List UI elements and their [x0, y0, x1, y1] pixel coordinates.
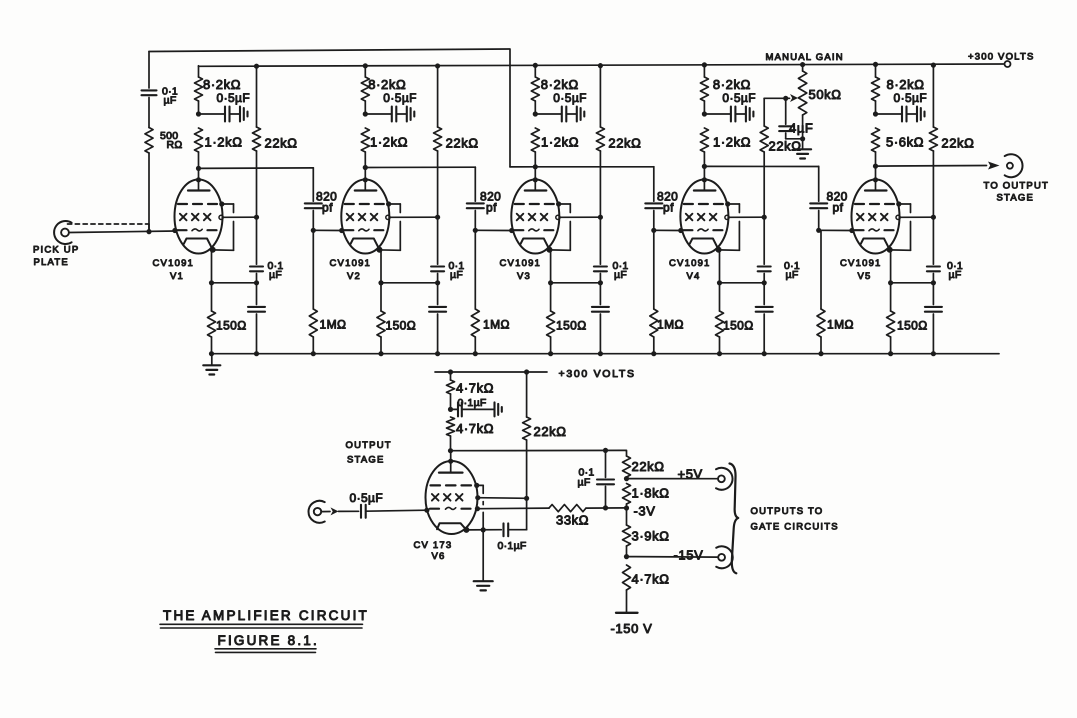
- svg-text:8·2kΩ: 8·2kΩ: [203, 77, 241, 92]
- wire : V5 anode to output terminal: [876, 165, 987, 168]
- svg-text:CV1091: CV1091: [330, 258, 372, 269]
- node : V3 grid: [473, 228, 478, 233]
- node : rail junction V4: [702, 62, 707, 67]
- ground (main): [211, 354, 213, 365]
- capacitor 820pf (V4 coupling): [653, 167, 655, 202]
- resistor 22k (V1 screen feed): [254, 64, 259, 69]
- svg-text:MANUAL GAIN: MANUAL GAIN: [766, 52, 844, 63]
- node : V6 decoupling junction: [448, 407, 453, 412]
- node : V4 screen grid junction: [762, 215, 767, 220]
- svg-text:pf: pf: [486, 201, 497, 215]
- wire : V1 anode to next stage coupling: [199, 167, 314, 170]
- wire : V6 screen to 22k: [478, 497, 527, 500]
- node : V4 grid: [651, 228, 656, 233]
- wire : V2 cathode to bypass capacitors: [381, 282, 438, 284]
- capacitor 4uF (gain smoothing): [785, 98, 787, 124]
- svg-text:33kΩ: 33kΩ: [556, 513, 589, 528]
- svg-text:22kΩ: 22kΩ: [446, 136, 479, 151]
- svg-text:50kΩ: 50kΩ: [809, 87, 842, 102]
- svg-text:-150 V: -150 V: [611, 621, 653, 636]
- wire : V4 anode to next stage coupling: [704, 165, 818, 167]
- wire : coupling capacitor to V5 grid: [819, 229, 852, 231]
- capacitor 0.5uF (V4 decoupling): [704, 113, 730, 115]
- wire : V6 suppressor to cathode bracket: [477, 484, 484, 486]
- tube V4 CV1091 pentode: [703, 166, 705, 179]
- svg-text:4·7kΩ: 4·7kΩ: [456, 421, 494, 436]
- resistor 22k (V2 screen feed): [435, 63, 440, 68]
- capacitor 0.1uF (V4 screen bypass): [763, 217, 765, 264]
- svg-text:V6: V6: [432, 551, 446, 562]
- resistor 22k (V3 screen feed): [598, 63, 603, 68]
- capacitor 0.1uF (divider bypass): [603, 448, 608, 453]
- pick up plate terminal: [61, 229, 69, 237]
- capacitor (V5 cathode bypass): [932, 283, 934, 305]
- tube V3 CV1091 pentode: [534, 167, 536, 180]
- svg-text:8·2kΩ: 8·2kΩ: [368, 77, 406, 92]
- svg-text:1MΩ: 1MΩ: [320, 318, 347, 332]
- node : V2 anode decoupling junction: [363, 111, 368, 116]
- svg-text:OUTPUT: OUTPUT: [346, 440, 392, 451]
- svg-text:0·1µF: 0·1µF: [458, 397, 487, 409]
- svg-text:+5V: +5V: [678, 467, 703, 482]
- svg-text:0·5µF: 0·5µF: [722, 91, 756, 105]
- svg-text:GATE CIRCUITS: GATE CIRCUITS: [751, 522, 839, 533]
- node : V1 cathode bypass junction: [254, 280, 259, 285]
- svg-text:22kΩ: 22kΩ: [534, 424, 567, 439]
- node : V1 screen grid junction: [254, 215, 259, 220]
- node : V3 screen grid junction: [598, 215, 603, 220]
- resistor 4.7k (V6 anode decoupling upper): [450, 372, 452, 380]
- svg-text:1MΩ: 1MΩ: [657, 318, 684, 332]
- capacitor 0.5uF (V3 decoupling): [535, 113, 561, 115]
- svg-text:4·7kΩ: 4·7kΩ: [632, 572, 670, 587]
- capacitor 820pf (V5 coupling): [818, 166, 820, 201]
- svg-text:3·9kΩ: 3·9kΩ: [632, 529, 670, 544]
- svg-text:pf: pf: [663, 201, 674, 215]
- svg-text:STAGE: STAGE: [347, 455, 385, 466]
- wire : V2 anode to next stage coupling: [365, 166, 475, 168]
- svg-text:+300 VOLTS: +300 VOLTS: [968, 52, 1034, 63]
- resistor 150 ohm (V1 cathode bias): [211, 249, 213, 311]
- capacitor 0.5uF (V6 input coupling): [321, 511, 330, 513]
- resistor 8.2k (V4 anode load upper): [703, 66, 705, 77]
- svg-text:µF: µF: [450, 269, 463, 281]
- tube V2 CV1091 pentode: [364, 168, 366, 180]
- wire : 50k wiper to V4 screen resistor: [763, 98, 765, 126]
- resistor 33k (V6 grid bias feed): [477, 507, 549, 510]
- svg-text:RΩ: RΩ: [167, 139, 183, 151]
- svg-text:1·2kΩ: 1·2kΩ: [370, 135, 408, 150]
- svg-text:OUTPUTS TO: OUTPUTS TO: [751, 506, 824, 517]
- svg-text:8·2kΩ: 8·2kΩ: [541, 77, 579, 92]
- node : V5 cathode bypass junction: [931, 280, 936, 285]
- svg-text:-3V: -3V: [634, 504, 656, 519]
- resistor 1.2kΩ (V4 anode load lower): [700, 128, 708, 152]
- svg-text:150Ω: 150Ω: [556, 319, 587, 333]
- node : rail junction V3: [533, 63, 538, 68]
- resistor 5.6kΩ (V5 anode load lower): [872, 128, 880, 152]
- node : +5V tap: [626, 477, 628, 479]
- svg-text:CV1091: CV1091: [153, 258, 195, 269]
- terminal TO OUTPUT STAGE: [1007, 163, 1013, 169]
- wire : feedback line from V3 anode to V1 grid network: [149, 49, 510, 167]
- svg-text:0·5µF: 0·5µF: [383, 91, 417, 105]
- svg-text:22kΩ: 22kΩ: [941, 136, 974, 151]
- resistor 1M (V2 grid leak): [312, 230, 314, 309]
- ground (below 50k pot): [802, 139, 804, 149]
- resistor 1.2kΩ (V1 anode load lower): [195, 128, 203, 152]
- resistor 8.2k (V1 anode load upper): [198, 66, 200, 77]
- resistor 8.2k (V2 anode load upper): [364, 66, 366, 77]
- svg-text:150Ω: 150Ω: [897, 319, 928, 333]
- node : V5 screen grid junction: [931, 215, 936, 220]
- svg-text:22kΩ: 22kΩ: [265, 136, 298, 151]
- node : V3 anode decoupling junction: [533, 111, 538, 116]
- svg-text:+300 VOLTS: +300 VOLTS: [559, 368, 636, 380]
- capacitor (V4 cathode bypass): [763, 283, 765, 305]
- svg-text:PLATE: PLATE: [34, 257, 69, 268]
- capacitor 0.5uF (V5 decoupling): [876, 113, 902, 115]
- node : V5 grid: [816, 228, 821, 233]
- capacitor (V2 cathode bypass): [437, 283, 439, 305]
- node : V2 anode: [363, 165, 368, 170]
- wire : -15V output: [627, 556, 718, 559]
- capacitor 0.1uF (V6 decoupling): [451, 408, 458, 410]
- terminal -150V: [616, 612, 638, 614]
- wire : V5 cathode to bypass capacitors: [891, 282, 934, 284]
- svg-text:µF: µF: [578, 477, 591, 489]
- svg-text:0·5µF: 0·5µF: [350, 491, 384, 505]
- resistor 150 ohm (V5 cathode bias): [890, 249, 892, 311]
- wire : V6 anode to divider: [451, 449, 626, 451]
- resistor 1M (V4 grid leak): [653, 230, 655, 309]
- resistor 4.7k (divider bottom): [623, 565, 631, 590]
- capacitor (V3 cathode bypass): [599, 283, 601, 305]
- wire : pick up plate to V1 grid (dashed shield): [68, 223, 149, 225]
- wire : +5V output: [627, 478, 718, 480]
- node : V4 anode: [702, 164, 707, 169]
- wire : V4 screen grid to dropper: [729, 216, 764, 218]
- capacitor 0.1uF (input network): [148, 52, 150, 89]
- terminal -15V: [718, 554, 725, 561]
- wire : +300V feed (output stage): [435, 371, 547, 373]
- wire : coupling capacitor to V2 grid: [313, 229, 342, 231]
- resistor 150 ohm (V4 cathode bias): [719, 249, 721, 311]
- resistor 4.7k (V6 anode load): [447, 417, 455, 436]
- node : rail junction V2: [363, 63, 368, 68]
- tube V6 CV173 output pentode: [450, 451, 452, 461]
- capacitor 820pf (V3 coupling): [474, 167, 476, 201]
- capacitor 820pf (V2 coupling): [312, 168, 314, 201]
- svg-text:0·5µF: 0·5µF: [894, 91, 928, 105]
- resistor 1.8k (divider): [623, 484, 631, 505]
- svg-text:µF: µF: [614, 269, 627, 281]
- svg-text:CV 173: CV 173: [414, 540, 453, 551]
- svg-text:PICK UP: PICK UP: [33, 245, 79, 256]
- wire : divider feed: [625, 450, 628, 456]
- wire : ground bus: [212, 353, 1000, 355]
- svg-text:µF: µF: [269, 269, 282, 281]
- wire : pick up plate to V1 grid: [69, 231, 176, 233]
- svg-text:22kΩ: 22kΩ: [769, 139, 802, 154]
- svg-text:5·6kΩ: 5·6kΩ: [886, 135, 924, 150]
- wire : V5 screen grid to dropper: [900, 216, 933, 218]
- capacitor 0.1uF (V2 screen bypass): [437, 217, 439, 264]
- svg-text:CV1091: CV1091: [840, 258, 882, 269]
- node : -15V tap: [624, 554, 629, 559]
- svg-text:V2: V2: [347, 271, 361, 282]
- brace : outputs group: [730, 464, 739, 574]
- wire : V2 screen grid to dropper: [390, 216, 438, 218]
- node : V6 anode: [448, 448, 453, 453]
- resistor 22k (divider top): [623, 456, 631, 477]
- resistor 3.9k (divider): [626, 508, 628, 525]
- svg-text:150Ω: 150Ω: [723, 319, 754, 333]
- svg-text:1·2kΩ: 1·2kΩ: [205, 135, 243, 150]
- svg-text:22kΩ: 22kΩ: [632, 459, 665, 474]
- svg-text:8·2kΩ: 8·2kΩ: [713, 77, 751, 92]
- svg-text:µF: µF: [786, 269, 799, 281]
- wire : V3 anode to feedback line: [510, 166, 535, 168]
- node : V3 anode: [533, 164, 538, 169]
- capacitor 0.5uF (V1 decoupling): [199, 113, 225, 115]
- capacitor 0.5uF (V2 decoupling): [365, 113, 391, 115]
- node : V4 cathode bypass junction: [762, 280, 767, 285]
- svg-text:22kΩ: 22kΩ: [608, 136, 641, 151]
- svg-text:CV1091: CV1091: [500, 258, 542, 269]
- capacitor 0.1uF (V3 screen bypass): [599, 217, 601, 264]
- capacitor 0.1uF (V5 screen bypass): [932, 217, 934, 264]
- resistor 8.2k (V5 anode load upper): [875, 66, 877, 77]
- resistor 22k (V5 screen feed): [931, 63, 936, 68]
- capacitor 0.1uF (V1 screen bypass): [256, 217, 258, 264]
- svg-text:THE AMPLIFIER CIRCUIT: THE AMPLIFIER CIRCUIT: [163, 608, 369, 623]
- node : V5 anode: [873, 164, 878, 169]
- node : V5 anode decoupling junction: [873, 111, 878, 116]
- wire : V4 cathode to bypass capacitors: [720, 282, 765, 284]
- resistor 1M (V5 grid leak): [820, 230, 822, 309]
- svg-text:0·1µF: 0·1µF: [498, 540, 527, 552]
- ground (V6 cathode): [482, 530, 484, 581]
- svg-text:4·7kΩ: 4·7kΩ: [456, 381, 494, 396]
- svg-text:8·2kΩ: 8·2kΩ: [887, 77, 925, 92]
- node : V3 cathode bypass junction: [598, 280, 603, 285]
- wire : +300V supply rail: [199, 64, 1004, 66]
- svg-text:4µF: 4µF: [789, 121, 813, 136]
- resistor 1M (V3 grid leak): [474, 230, 476, 309]
- node : grid network junction: [146, 229, 151, 234]
- svg-text:pf: pf: [833, 201, 844, 215]
- wire : coupling capacitor to V3 grid: [475, 229, 512, 231]
- terminal : output stage input: [314, 508, 321, 515]
- node : V1 anode decoupling junction: [196, 111, 201, 116]
- resistor 500 R: [145, 128, 153, 154]
- terminal +300 VOLTS: [1005, 61, 1011, 67]
- svg-text:FIGURE 8.1.: FIGURE 8.1.: [218, 633, 319, 648]
- node : V4 anode decoupling junction: [702, 111, 707, 116]
- wire : V6 cathode: [466, 529, 501, 531]
- svg-text:-15V: -15V: [674, 548, 704, 563]
- svg-text:150Ω: 150Ω: [386, 319, 417, 333]
- node : V2 screen grid junction: [435, 215, 440, 220]
- svg-text:µF: µF: [949, 269, 962, 281]
- resistor 22k (V4 screen feed from gain pot): [760, 126, 768, 152]
- tube V1 CV1091 pentode: [198, 168, 200, 179]
- svg-text:STAGE: STAGE: [997, 193, 1035, 204]
- node : V2 grid: [311, 228, 316, 233]
- svg-text:TO OUTPUT: TO OUTPUT: [984, 181, 1050, 192]
- node : V1 anode: [196, 166, 201, 171]
- svg-text:1MΩ: 1MΩ: [827, 318, 854, 332]
- svg-text:1·8kΩ: 1·8kΩ: [632, 486, 670, 501]
- wire : V1 screen grid to dropper: [223, 216, 256, 218]
- svg-text:0·5µF: 0·5µF: [553, 91, 587, 105]
- svg-text:CV1091: CV1091: [669, 258, 711, 269]
- svg-text:1·2kΩ: 1·2kΩ: [713, 135, 751, 150]
- capacitor 0.1uF (V6 screen bypass): [502, 523, 504, 536]
- potentiometer 50k MANUAL GAIN: [800, 62, 805, 67]
- svg-text:0·5µF: 0·5µF: [217, 91, 251, 105]
- wire : V3 screen grid to dropper: [560, 216, 600, 218]
- node : pot bottom junction: [800, 136, 805, 141]
- svg-text:pf: pf: [322, 201, 333, 215]
- node : V2 cathode bypass junction: [435, 280, 440, 285]
- wire : V3 cathode to bypass capacitors: [551, 282, 601, 284]
- tube V5 CV1091 pentode: [875, 166, 877, 179]
- resistor 150 ohm (V2 cathode bias): [380, 249, 382, 311]
- wire : coupling capacitor to V4 grid: [654, 229, 681, 231]
- node : -3V tap: [624, 505, 629, 510]
- resistor 150 ohm (V3 cathode bias): [550, 249, 552, 311]
- resistor 1.2kΩ (V2 anode load lower): [361, 128, 369, 152]
- capacitor (V1 cathode bypass): [256, 283, 258, 305]
- wire : V3 anode to next stage coupling: [535, 166, 654, 168]
- svg-text:V1: V1: [170, 271, 184, 282]
- resistor 22k (V6 screen feed): [526, 372, 528, 417]
- svg-text:V5: V5: [858, 271, 872, 282]
- svg-text:µF: µF: [164, 95, 177, 107]
- svg-text:1MΩ: 1MΩ: [483, 318, 510, 332]
- terminal +5V: [718, 475, 725, 482]
- svg-text:1·2kΩ: 1·2kΩ: [541, 135, 579, 150]
- wiper arrow of 50k pot: [786, 97, 790, 99]
- svg-text:V4: V4: [687, 271, 701, 282]
- resistor 8.2k (V3 anode load upper): [534, 66, 536, 77]
- node : V6 screen junction: [524, 496, 529, 501]
- resistor 1.2kΩ (V3 anode load lower): [531, 128, 539, 152]
- wire : V1 cathode to bypass capacitors: [212, 282, 257, 284]
- svg-text:V3: V3: [517, 271, 531, 282]
- svg-text:150Ω: 150Ω: [216, 319, 247, 333]
- node : rail junction V5: [873, 62, 878, 67]
